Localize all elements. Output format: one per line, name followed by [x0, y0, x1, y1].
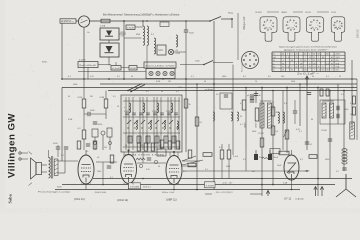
output arrow 1	[314, 187, 317, 197]
wire vertical x330	[329, 91, 331, 151]
svg-text:0,1: 0,1	[176, 91, 179, 93]
svg-text:0,1: 0,1	[326, 76, 329, 78]
wire	[105, 108, 107, 119]
capacitor above tube1	[86, 144, 90, 146]
socket bottom view circle	[242, 52, 259, 69]
svg-text:17031: 17031	[124, 111, 129, 113]
tube2 grid cap	[128, 150, 130, 152]
svg-text:7: 7	[318, 57, 319, 59]
resistor 1k	[184, 99, 188, 108]
svg-text:7: 7	[305, 57, 306, 59]
wire cap hang	[185, 21, 187, 30]
capacitor 5000 b	[250, 97, 254, 99]
svg-text:0,1: 0,1	[300, 159, 303, 161]
junction 197,84	[196, 83, 198, 85]
svg-text:1,4: 1,4	[286, 57, 289, 59]
svg-text:0,1: 0,1	[191, 76, 194, 78]
wire	[105, 91, 107, 100]
svg-text:7: 7	[292, 54, 293, 56]
svg-text:7: 7	[287, 54, 288, 56]
svg-text:10000: 10000	[245, 123, 247, 128]
wire vertical x287	[286, 88, 288, 154]
svg-text:2: 2	[296, 63, 297, 65]
svg-text:B250: B250	[121, 32, 127, 34]
svg-text:a: a	[316, 27, 317, 29]
svg-text:U+Anode: U+Anode	[295, 198, 305, 201]
svg-text:95: 95	[282, 63, 284, 65]
svg-text:d: d	[312, 27, 313, 29]
svg-text:2M: 2M	[90, 96, 93, 98]
svg-text:50: 50	[350, 114, 352, 116]
paper shading left edge	[0, 0, 5, 213]
heater plug contact 2	[156, 71, 160, 75]
tuner wire x179	[178, 97, 180, 150]
svg-text:Ig2: Ig2	[273, 67, 276, 69]
svg-text:5000: 5000	[291, 81, 295, 83]
resistor 0,1M	[82, 99, 86, 108]
tuner wire x140	[139, 97, 141, 150]
svg-text:2M: 2M	[276, 112, 279, 114]
junction	[213, 184, 215, 186]
wire vertical x283	[282, 91, 284, 151]
svg-text:0,5M: 0,5M	[156, 81, 161, 83]
wire tube4 top	[291, 150, 293, 155]
IFT2 can	[320, 100, 345, 124]
wire spk a	[42, 164, 48, 166]
wire xfmr up	[64, 150, 66, 173]
IFT2 trim capacitor a	[337, 106, 339, 110]
wire rectifier link	[108, 40, 110, 43]
svg-text:g: g	[289, 27, 290, 29]
antenna coil a	[213, 112, 215, 121]
tuner bus 3	[123, 132, 180, 134]
svg-text:0,1: 0,1	[299, 131, 302, 133]
wire after switch	[221, 18, 232, 20]
socket label dash 2	[293, 11, 303, 13]
wire long vertical x214	[213, 21, 215, 189]
junction 300,84	[299, 83, 301, 85]
detector wiring diagonal b	[182, 160, 203, 165]
wire vertical x300	[299, 84, 301, 126]
IFT2 primary winding	[322, 103, 326, 118]
svg-text:17038: 17038	[130, 186, 140, 188]
IFT1 top link	[260, 100, 272, 102]
junction 352,79	[351, 78, 353, 80]
loudspeaker	[29, 152, 42, 186]
svg-text:170: 170	[313, 63, 316, 65]
wave switch contacts row 2	[127, 127, 177, 128]
wire mid drop	[142, 151, 144, 163]
tube UY11 electrodes	[287, 163, 296, 180]
tube socket diagram UCL	[307, 17, 324, 41]
wire selector down	[83, 27, 85, 79]
capacitor 0,1uF b	[328, 139, 332, 141]
svg-text:30: 30	[161, 91, 163, 93]
svg-text:25: 25	[282, 70, 284, 72]
resistor 0,5M	[271, 126, 275, 135]
voltage selector circle	[78, 16, 89, 27]
plate 17038 below tube2	[129, 183, 141, 189]
svg-text:9000 u. 0,1uF: 9000 u. 0,1uF	[162, 192, 175, 194]
junction	[231, 18, 233, 20]
capacitor 5000	[93, 122, 97, 124]
svg-text:0,1: 0,1	[243, 76, 246, 78]
junction	[286, 87, 288, 89]
svg-text:U10: U10	[159, 50, 164, 52]
svg-text:0,1M: 0,1M	[78, 97, 83, 99]
resistor 50k b	[260, 138, 264, 147]
svg-text:Villingen GW: Villingen GW	[7, 113, 18, 178]
svg-text:b: b	[292, 28, 293, 30]
svg-text:7: 7	[314, 70, 315, 72]
tube UCL11 electrodes	[81, 165, 91, 183]
wire vertical x238	[237, 13, 239, 60]
wire left vertical	[61, 23, 63, 79]
svg-text:0,2: 0,2	[243, 159, 246, 161]
wire plate up b	[115, 62, 117, 66]
svg-text:s: s	[269, 22, 270, 24]
tuner wire x168	[167, 97, 169, 150]
output transformer core	[52, 156, 53, 179]
capacitor tone b	[64, 147, 68, 149]
svg-text:h: h	[271, 25, 272, 27]
rectifier 1	[100, 28, 119, 40]
wire	[83, 79, 85, 99]
wire into heater box	[146, 62, 148, 69]
wire vertical x318	[317, 88, 319, 197]
junction 163,79	[162, 78, 164, 80]
detector wiring diagonal a	[182, 156, 196, 161]
wave switch contacts row 1	[127, 120, 173, 124]
svg-text:170: 170	[304, 70, 307, 72]
resistor above tube3 a	[160, 140, 164, 148]
junction	[123, 78, 125, 80]
capacitor 100pF	[293, 111, 297, 113]
resistor 10000	[255, 108, 259, 121]
svg-text:50: 50	[312, 76, 314, 78]
wire	[294, 113, 296, 124]
coil	[143, 103, 145, 113]
svg-text:60: 60	[311, 119, 313, 121]
IFT1 primary winding	[260, 103, 264, 128]
svg-text:0,25A: 0,25A	[100, 25, 106, 28]
wire rect1 to box	[119, 33, 126, 35]
svg-text:0,25: 0,25	[90, 76, 94, 78]
svg-text:80: 80	[322, 57, 324, 59]
svg-text:12: 12	[313, 57, 315, 59]
svg-text:5000: 5000	[222, 76, 226, 78]
tuner wire x133	[132, 97, 134, 150]
plate 17040	[270, 149, 280, 154]
wire x229 up	[228, 144, 230, 150]
wire bus y189	[55, 189, 300, 191]
resistor 50k det	[353, 107, 356, 115]
wire tube1 cathode	[85, 184, 87, 190]
svg-text:17044: 17044	[321, 130, 327, 132]
svg-text:17033: 17033	[166, 111, 171, 113]
svg-text:30: 30	[68, 96, 70, 98]
wire x197	[196, 84, 198, 189]
coupling box mid	[157, 149, 166, 156]
wire tube3 out a	[182, 165, 196, 167]
coupling capacitor	[88, 112, 90, 116]
svg-text:1M: 1M	[104, 147, 107, 149]
resistor right of tube3	[188, 163, 196, 167]
wire	[294, 100, 296, 111]
wire t3 pin right	[178, 183, 180, 185]
wire x222 up	[221, 144, 223, 150]
wire spk b	[42, 171, 48, 173]
svg-text:45: 45	[318, 67, 320, 69]
resistor 0,3M	[104, 99, 108, 108]
tuner coil 8	[177, 121, 178, 129]
measurement table	[272, 52, 345, 72]
tuner assembly frame	[121, 95, 182, 152]
wire	[272, 101, 274, 110]
tuner coil 5	[136, 121, 137, 129]
svg-text:0,3: 0,3	[284, 103, 287, 105]
wire coil to bus	[142, 21, 144, 26]
svg-text:0: 0	[283, 60, 284, 62]
output transformer secondary winding	[54, 159, 58, 176]
svg-text:0,1: 0,1	[240, 124, 243, 126]
output transformer primary winding	[49, 158, 51, 178]
svg-text:Ia: Ia	[273, 63, 275, 65]
svg-text:5000: 5000	[344, 109, 348, 111]
junction 147,21	[146, 20, 148, 22]
svg-text:80: 80	[326, 54, 328, 56]
antenna coil c	[237, 112, 239, 121]
tuner wire x157	[156, 97, 158, 150]
svg-text:0,3M: 0,3M	[100, 97, 105, 99]
svg-text:3000 2,5000: 3000 2,5000	[95, 192, 107, 194]
svg-text:1M: 1M	[168, 81, 171, 83]
svg-text:Uk: Uk	[273, 60, 275, 62]
wire t3 pin left	[169, 183, 171, 185]
wire	[83, 139, 85, 150]
resistor 50k	[82, 130, 86, 139]
IFT2 top link	[322, 100, 334, 102]
svg-text:0,25: 0,25	[146, 169, 150, 171]
wire top bus	[90, 20, 210, 22]
wire cap down2	[185, 32, 187, 40]
cap block box	[78, 62, 98, 68]
drop d	[177, 152, 179, 157]
svg-text:12: 12	[282, 67, 284, 69]
mid cluster circle a	[139, 164, 142, 167]
svg-text:g: g	[313, 27, 314, 29]
svg-text:7: 7	[292, 67, 293, 69]
wire plates link a	[98, 64, 111, 66]
svg-text:Freischwinger-Lautspr.: Freischwinger-Lautspr.	[38, 190, 72, 193]
svg-text:1,4: 1,4	[286, 67, 289, 69]
tube socket diagram UBF	[283, 17, 300, 41]
wire tube4 cathode	[291, 180, 293, 190]
svg-text:6: 6	[331, 70, 332, 72]
svg-text:(UCH 11): (UCH 11)	[117, 198, 128, 202]
mid cluster circle b	[154, 160, 157, 163]
AF network cluster	[92, 128, 112, 150]
svg-text:0,1: 0,1	[350, 103, 353, 105]
socket label dash 3	[317, 11, 329, 13]
svg-text:0,1A: 0,1A	[283, 182, 288, 185]
arrow B+ up	[305, 76, 308, 86]
wire bus y178	[93, 178, 352, 180]
dial lamp	[168, 49, 173, 54]
paper shading bottom edge	[0, 208, 360, 213]
wire x186	[185, 79, 187, 152]
wire y71 link	[78, 71, 146, 73]
svg-text:h: h	[340, 25, 341, 27]
heater plug contact 1	[149, 71, 153, 75]
tube UBF11 electrodes	[169, 165, 179, 183]
junction	[343, 90, 345, 92]
junction	[317, 87, 319, 89]
svg-text:17032: 17032	[152, 111, 157, 113]
junction	[261, 87, 263, 89]
svg-text:0,1: 0,1	[341, 94, 344, 96]
tuner wire x129	[128, 97, 130, 150]
wire	[90, 113, 106, 115]
tube UCL11 envelope	[78, 155, 94, 184]
svg-text:50: 50	[158, 166, 160, 168]
wire vertical x307	[306, 79, 308, 150]
tuner wire x147	[146, 97, 148, 150]
wire sec b	[58, 172, 65, 174]
wire x222 drop	[221, 159, 223, 179]
svg-text:0: 0	[305, 67, 306, 69]
svg-text:0: 0	[309, 63, 310, 65]
svg-text:s: s	[316, 22, 317, 24]
resistor 0,1M det	[353, 96, 356, 104]
svg-text:0,1: 0,1	[302, 87, 305, 89]
junction	[142, 20, 144, 22]
output arrow 3	[266, 191, 269, 197]
wire switch drop	[231, 19, 233, 28]
tuner bus 1	[123, 100, 180, 102]
wire x246 lower	[245, 150, 247, 171]
svg-text:Eisen-Urdox 17045: Eisen-Urdox 17045	[146, 64, 176, 67]
junction	[185, 20, 187, 22]
wire bus y84	[100, 83, 357, 85]
svg-text:d: d	[266, 27, 267, 29]
svg-text:5000: 5000	[178, 87, 182, 89]
junction 103,184.5	[102, 184, 104, 186]
pickup terminal circles	[19, 152, 28, 160]
svg-text:s: s	[292, 22, 293, 24]
svg-text:0,1: 0,1	[110, 177, 113, 179]
wire t2 pin right	[132, 183, 134, 185]
wire label lead b	[250, 193, 262, 195]
capacitor x109	[107, 166, 111, 168]
wire bus y87	[62, 87, 357, 89]
electrolytic capacitor b	[268, 150, 272, 160]
svg-text:UY11: UY11	[331, 12, 337, 14]
svg-text:0: 0	[331, 67, 332, 69]
junction	[123, 20, 125, 22]
resistor small a	[320, 89, 323, 96]
plate 0,1uF	[111, 66, 121, 71]
TA switch line	[180, 61, 233, 66]
HF choke winding	[350, 122, 355, 139]
svg-text:-: -	[85, 24, 86, 27]
svg-text:45: 45	[313, 54, 315, 56]
volume potentiometer with mains switch	[127, 84, 145, 93]
svg-text:50uF: 50uF	[274, 157, 279, 159]
wire vertical x262	[261, 88, 263, 197]
svg-text:2: 2	[309, 54, 310, 56]
resistor mid c	[151, 143, 155, 151]
wire left column down	[61, 88, 63, 162]
IFT1 secondary winding	[268, 103, 272, 128]
IFT2 trim capacitor b	[337, 114, 339, 118]
wire plates link c	[137, 67, 144, 69]
svg-text:0,1A: 0,1A	[176, 52, 181, 55]
wire tube2 cathode	[128, 184, 130, 190]
wire sec a	[58, 160, 62, 162]
wire lamp to x186	[174, 51, 186, 53]
svg-text:0,1: 0,1	[336, 171, 339, 173]
svg-text:100: 100	[281, 76, 284, 78]
svg-text:Saba: Saba	[8, 193, 13, 203]
junction	[185, 78, 187, 80]
svg-text:5000: 5000	[325, 159, 329, 161]
wire bus y79	[62, 78, 357, 80]
junction 291.5,189.5	[291, 189, 293, 191]
resistor mid a	[137, 143, 141, 151]
svg-text:0,1uF: 0,1uF	[112, 68, 121, 70]
capacitor det b	[250, 100, 254, 102]
aux coil x176	[176, 35, 178, 47]
resistor x309 lower	[309, 155, 317, 159]
capacitor right	[305, 142, 309, 144]
junction 273,90.5	[272, 90, 274, 92]
svg-text:50: 50	[352, 87, 354, 89]
wire tap	[124, 37, 142, 39]
resistor 30k	[195, 117, 199, 126]
wire rectifier down	[108, 57, 110, 62]
wire	[57, 145, 59, 147]
svg-text:12: 12	[309, 57, 311, 59]
svg-text:Ug2: Ug2	[273, 57, 276, 59]
tuner bus 2	[123, 116, 180, 118]
wire t1 pin right	[90, 184, 92, 185]
svg-text:NSF: NSF	[136, 34, 141, 36]
svg-text:220V~: 220V~	[61, 20, 75, 23]
resistor small b	[326, 89, 329, 96]
heater connector box	[146, 69, 175, 79]
svg-text:95: 95	[291, 70, 293, 72]
svg-text:d: d	[335, 26, 336, 28]
resistor x112 lower	[110, 155, 114, 163]
wire	[57, 149, 59, 157]
svg-text:50: 50	[204, 81, 206, 83]
junction	[306, 170, 308, 172]
dial drive box U10	[157, 45, 166, 55]
svg-text:12: 12	[300, 60, 302, 62]
wire tube1 top	[85, 150, 87, 155]
mid cluster wavy resistor	[136, 158, 145, 160]
coil	[157, 103, 159, 113]
svg-text:(UCL 11): (UCL 11)	[74, 197, 85, 201]
tuner bus 4	[123, 146, 180, 148]
svg-text:(UBF 11): (UBF 11)	[166, 198, 177, 202]
output arrow 2	[320, 187, 323, 197]
tuner coil 7	[164, 121, 165, 129]
wire vertical x344	[343, 91, 345, 172]
svg-text:W: W	[240, 116, 242, 118]
resistor volume	[285, 130, 289, 139]
